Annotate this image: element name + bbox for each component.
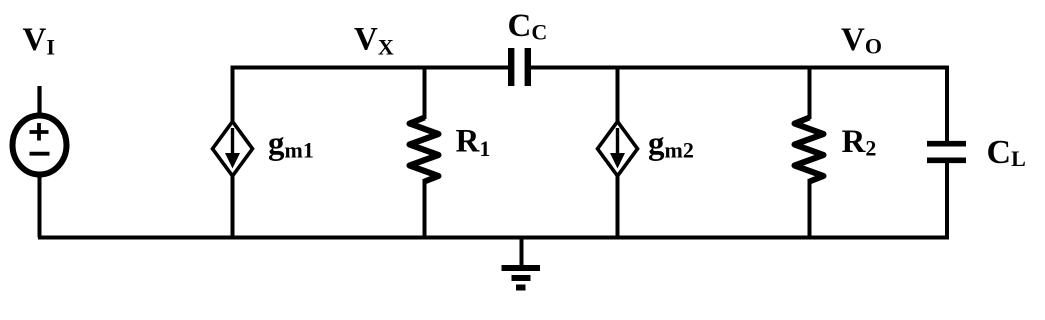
wire: R1 top lead [423, 68, 427, 120]
svg-text:VX: VX [354, 22, 394, 60]
resistor R1 zigzag [410, 118, 439, 182]
ground bar 3 [516, 285, 526, 291]
wire: C_L top lead from rail [945, 68, 949, 143]
capacitor C_C left plate [508, 48, 514, 86]
g_m2 arrow (downward) [616, 128, 619, 156]
dependent current source g_m1 diamond [213, 122, 253, 177]
wire: bottom ground rail [38, 236, 949, 240]
wire: C_L bottom lead to rail [945, 162, 949, 238]
svg-text:R1: R1 [456, 124, 491, 162]
wire: g_m2 bottom to rail [616, 176, 620, 238]
voltage source V_I circle [13, 116, 67, 175]
capacitor C_C right plate [525, 48, 531, 86]
wire: R1 bottom lead [423, 179, 427, 238]
svg-text:VI: VI [23, 22, 55, 60]
svg-text:CC: CC [508, 8, 548, 45]
dependent current source g_m2 diamond [598, 122, 638, 177]
wire: R2 top lead [808, 68, 812, 120]
wire: V_I source bottom to rail [38, 174, 42, 238]
capacitor C_L bottom plate [927, 158, 966, 164]
ground bar 2 [512, 275, 531, 281]
svg-text:CL: CL [987, 134, 1026, 171]
capacitor C_L top plate [927, 141, 966, 147]
wire: g_m2 top to rail [616, 68, 620, 123]
voltage source plus sign [30, 123, 49, 141]
voltage source minus sign [30, 152, 50, 156]
wire: R2 bottom lead [808, 179, 812, 238]
ground stem [520, 238, 524, 267]
wire: top rail node V_O [530, 66, 949, 70]
svg-text:gm1: gm1 [268, 126, 314, 163]
svg-text:R2: R2 [842, 124, 877, 161]
svg-text:gm2: gm2 [648, 126, 694, 163]
wire: g_m1 bottom to rail [231, 176, 235, 238]
resistor R2 zigzag [795, 118, 824, 182]
svg-text:VO: VO [841, 22, 882, 59]
wire: g_m1 top to rail [231, 68, 235, 123]
wire: V_I source top stub (open terminal) [37, 86, 41, 114]
wire: top rail node V_X [231, 66, 510, 70]
ground bar 1 [502, 265, 541, 271]
g_m1 arrow (downward) [231, 128, 234, 156]
